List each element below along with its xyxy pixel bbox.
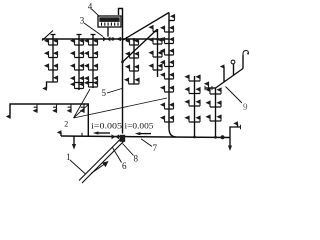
leader for 7 <box>141 139 152 147</box>
diagonal D2 to second riser <box>123 29 158 62</box>
tank outlet pipe <box>107 27 109 37</box>
riser R3 <box>84 35 98 89</box>
H3 end elbow riser <box>230 121 241 137</box>
valve on H1 <box>103 37 110 42</box>
drain at H3 end <box>228 137 232 151</box>
svg-text:i=0.005: i=0.005 <box>91 122 122 131</box>
svg-text:8: 8 <box>134 154 139 164</box>
inlet pipe double line <box>79 139 124 184</box>
leader for 1 <box>70 160 86 174</box>
junction dot on H1 <box>111 37 114 40</box>
flow arrow on inlet <box>91 161 109 174</box>
drain stub with arrow on H3 left <box>72 136 76 149</box>
slope arrow 1 <box>93 131 110 134</box>
junction dot on H3 right <box>221 135 225 139</box>
riser C <box>184 74 200 138</box>
leaders for 2 <box>74 89 168 118</box>
svg-text:9: 9 <box>243 102 248 112</box>
tick on H3 left section <box>81 133 83 137</box>
water tank <box>98 16 121 27</box>
wire H1 horizontal main from tank <box>42 38 169 40</box>
leader for 6 <box>113 148 122 163</box>
junction dots on H1 <box>52 38 55 41</box>
svg-text:2: 2 <box>64 120 68 129</box>
wire H3 bottom main <box>61 136 230 138</box>
leader for 3 <box>84 23 103 37</box>
riser D <box>205 87 221 138</box>
svg-text:6: 6 <box>122 161 127 171</box>
svg-text:7: 7 <box>153 143 158 153</box>
flow arrow on H1 <box>116 37 121 41</box>
riser RB <box>148 25 162 77</box>
riser RA <box>160 13 176 137</box>
svg-text:1: 1 <box>66 152 71 162</box>
riser 5 (tank riser) <box>119 9 123 134</box>
leader for 4 <box>92 9 99 16</box>
leader for 8 <box>123 144 134 156</box>
riser R5b <box>124 38 140 84</box>
valve at riser 5 base <box>120 135 126 142</box>
svg-text:5: 5 <box>102 88 107 98</box>
leader for 9 <box>226 87 243 104</box>
shower branch group 9 <box>204 51 249 91</box>
diagonal D1 to top-right riser <box>123 13 169 41</box>
H3 left end faucet <box>57 130 62 136</box>
svg-text:3: 3 <box>80 16 85 26</box>
riser R1 <box>42 35 58 91</box>
riser R2 <box>70 35 84 91</box>
H2 stub faucets <box>33 104 85 113</box>
tick on H1 right of riser 5 <box>126 37 128 41</box>
svg-text:i=0.005: i=0.005 <box>125 122 154 131</box>
H1 left end tick <box>42 31 53 41</box>
slope arrow 2 <box>135 132 151 135</box>
leader for 5 <box>107 89 122 94</box>
check valve on H3 <box>112 134 120 139</box>
wire H2 lower-left branch <box>10 104 88 136</box>
H2 left end faucet <box>6 114 11 119</box>
